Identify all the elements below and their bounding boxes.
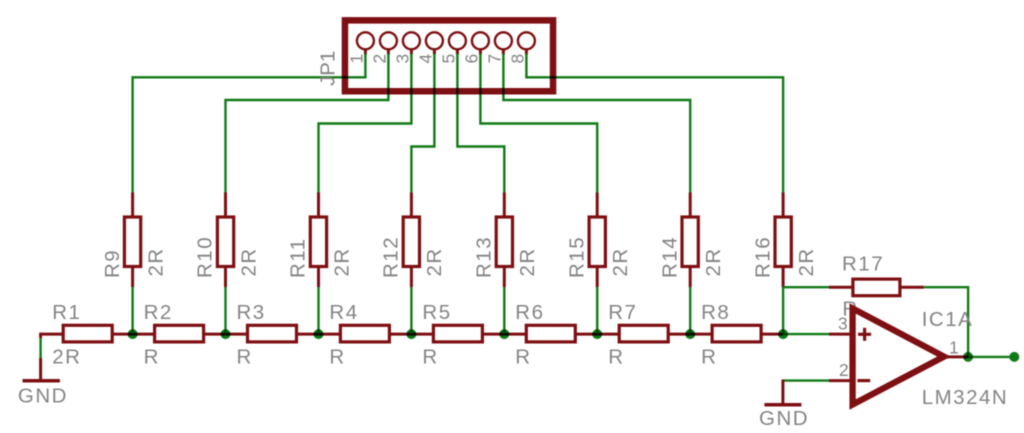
svg-text:R: R (515, 345, 531, 368)
wire JP1 pin 4 to R12 (411, 49, 434, 194)
svg-text:GND: GND (759, 407, 809, 430)
svg-text:R15: R15 (566, 236, 589, 278)
svg-text:R: R (701, 345, 717, 368)
ground GND (right) (759, 380, 809, 431)
svg-text:R5: R5 (422, 301, 451, 324)
svg-text:GND: GND (18, 385, 68, 408)
wire bus horizontal (41, 333, 783, 336)
wire JP1 pin 3 to R11 (319, 49, 412, 194)
node junction R14/bus (685, 329, 695, 339)
wire op-amp -input to GND (783, 379, 829, 381)
svg-text:2R: 2R (702, 247, 725, 276)
node junction R16/bus (778, 329, 788, 339)
svg-text:R4: R4 (329, 301, 358, 324)
resistor R8 (701, 301, 761, 368)
svg-text:IC1A: IC1A (922, 308, 974, 331)
resistor R12 (380, 193, 447, 288)
resistor R7 (608, 301, 668, 368)
wire R16/bus node to R17 left (783, 286, 829, 288)
wire R14 to bus node (689, 286, 691, 335)
resistor R6 (515, 301, 575, 368)
node junction R11/bus (314, 329, 324, 339)
svg-text:JP1: JP1 (317, 51, 340, 86)
svg-text:R7: R7 (608, 301, 637, 324)
svg-text:2R: 2R (795, 247, 818, 276)
resistor R2 (144, 301, 204, 368)
svg-text:R10: R10 (194, 236, 217, 278)
svg-text:2: 2 (369, 52, 389, 63)
svg-text:R: R (144, 345, 160, 368)
wire R15 to bus node (596, 286, 598, 335)
svg-text:R: R (608, 345, 624, 368)
resistor R10 (194, 193, 261, 288)
node junction R10/bus (221, 329, 231, 339)
resistor R11 (287, 193, 354, 288)
svg-text:R: R (329, 345, 345, 368)
svg-text:R3: R3 (237, 301, 266, 324)
wire JP1 pin 5 to R13 (457, 49, 504, 194)
svg-text:2R: 2R (330, 247, 353, 276)
svg-text:R: R (422, 345, 438, 368)
svg-text:2R: 2R (237, 247, 260, 276)
svg-text:3: 3 (838, 314, 849, 334)
ground GND (left) (18, 358, 68, 408)
svg-text:R: R (237, 345, 253, 368)
connector JP1 (317, 20, 554, 91)
svg-text:R8: R8 (701, 301, 730, 324)
resistor R14 (658, 193, 725, 288)
node junction R9/bus (128, 329, 138, 339)
wire JP1 pin 1 to R9 (133, 49, 366, 194)
svg-text:1: 1 (949, 337, 960, 357)
wire R13 to bus node (503, 286, 505, 335)
wire R12 to bus node (410, 286, 412, 335)
node junction R13/bus (499, 329, 509, 339)
wire output net (968, 356, 1014, 358)
svg-text:R17: R17 (842, 253, 884, 276)
node junction R12/bus (406, 329, 416, 339)
svg-text:3: 3 (392, 52, 412, 63)
resistor R13 (473, 193, 540, 288)
svg-text:4: 4 (415, 52, 435, 63)
resistor R16 (751, 193, 818, 288)
wire bus to op-amp +input (783, 333, 829, 335)
resistor R15 (566, 193, 633, 288)
resistor R5 (422, 301, 482, 368)
svg-text:R16: R16 (751, 236, 774, 278)
wire JP1 pin 8 to R16 (526, 49, 783, 194)
node junction R15/bus (592, 329, 602, 339)
svg-text:R13: R13 (473, 236, 496, 278)
svg-text:R1: R1 (52, 301, 81, 324)
svg-text:R11: R11 (287, 237, 310, 278)
resistor R17 (829, 253, 924, 321)
svg-text:2R: 2R (423, 247, 446, 276)
svg-text:1: 1 (346, 52, 366, 63)
svg-text:R12: R12 (380, 236, 403, 278)
wire JP1 pin 2 to R10 (226, 49, 389, 194)
svg-text:7: 7 (484, 52, 504, 63)
wire R1 to GND (39, 337, 41, 359)
wire JP1 pin 6 to R15 (480, 49, 597, 194)
svg-text:2: 2 (839, 360, 850, 380)
resistor R1 (52, 301, 112, 368)
svg-text:R2: R2 (144, 301, 173, 324)
svg-text:R14: R14 (658, 236, 681, 278)
svg-text:2R: 2R (52, 345, 81, 368)
node output junction (963, 352, 973, 362)
wire JP1 pin 7 to R14 (503, 49, 690, 194)
wire R17 to output node (924, 287, 968, 357)
wire R10 to bus node (224, 286, 226, 335)
svg-text:R9: R9 (101, 249, 124, 278)
wire R11 to bus node (317, 286, 319, 335)
svg-text:8: 8 (507, 52, 527, 63)
svg-text:2R: 2R (609, 247, 632, 276)
resistor R4 (329, 301, 389, 368)
resistor R3 (237, 301, 297, 368)
svg-text:2R: 2R (516, 247, 539, 276)
wire R16 to bus node (782, 286, 784, 335)
svg-text:6: 6 (461, 52, 481, 63)
op-amp IC1A LM324N (829, 308, 1008, 409)
wire R9 to bus node (131, 286, 133, 335)
svg-text:LM324N: LM324N (922, 386, 1009, 409)
svg-text:2R: 2R (144, 247, 167, 276)
svg-text:R6: R6 (515, 301, 544, 324)
node output endpoint (1009, 352, 1019, 362)
resistor R9 (101, 193, 168, 288)
svg-text:5: 5 (438, 52, 458, 63)
